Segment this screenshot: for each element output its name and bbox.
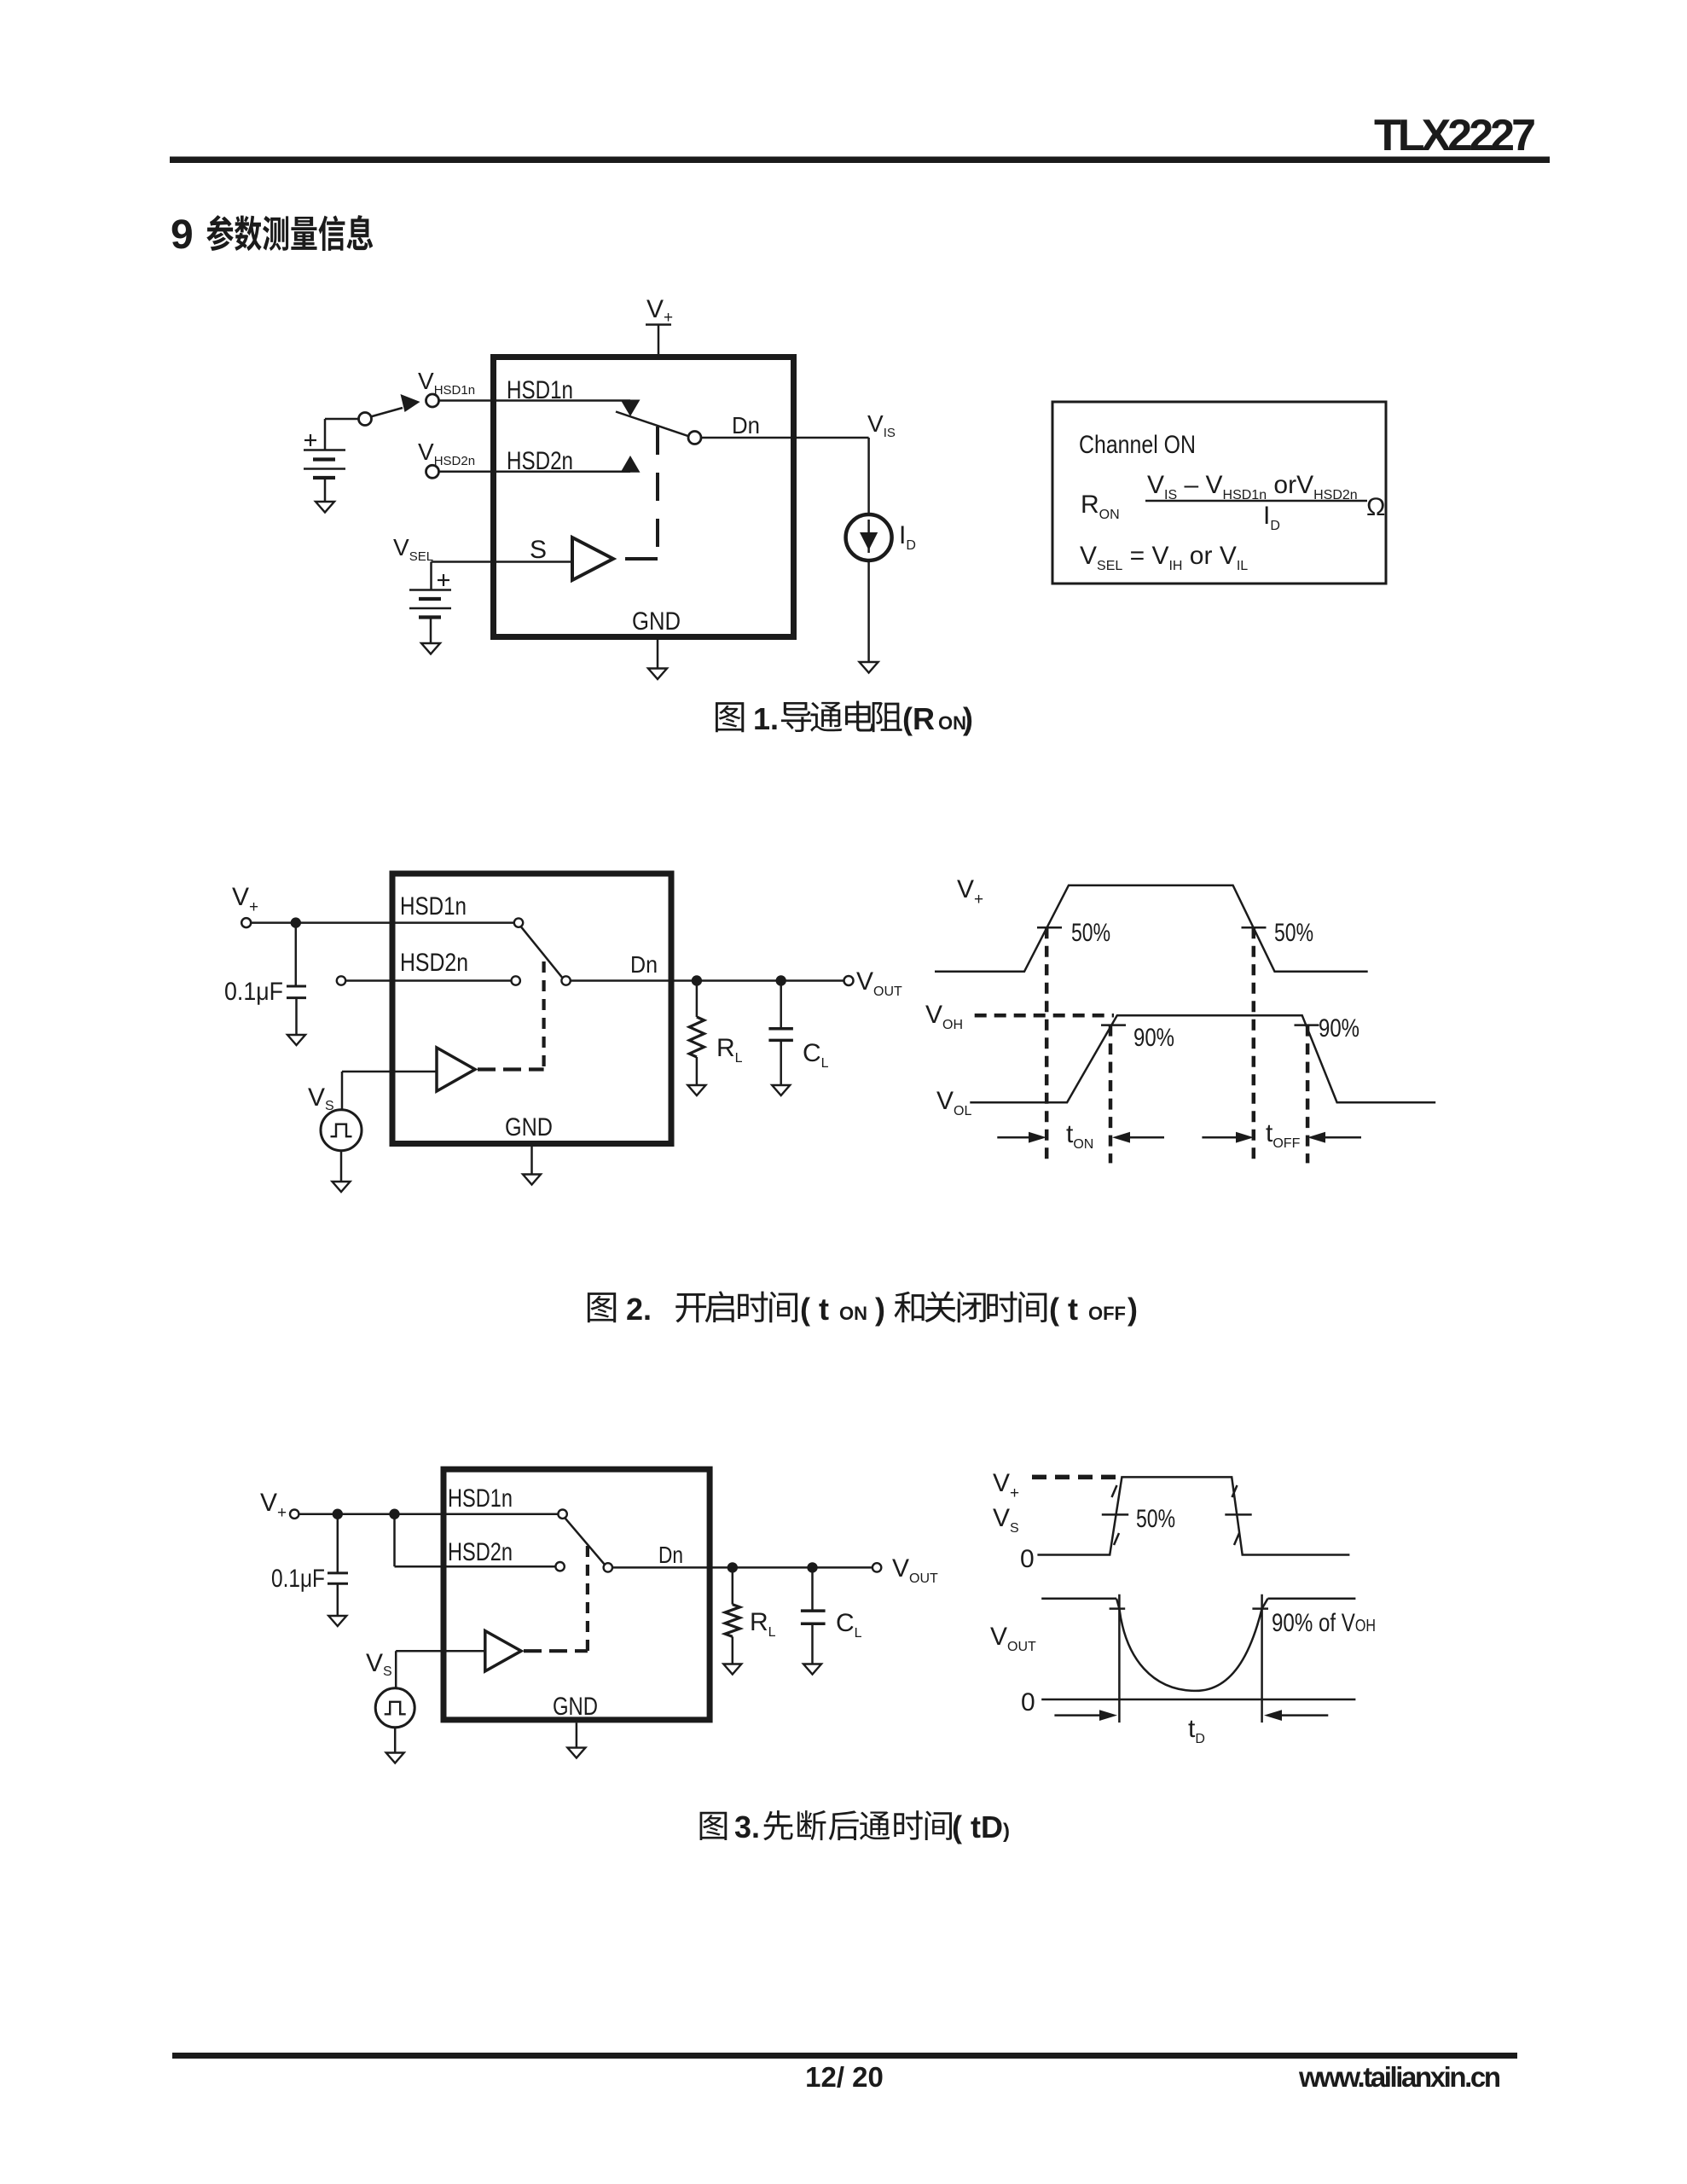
svg-text:HSD2n: HSD2n xyxy=(400,949,468,977)
svg-text:0.1μF: 0.1μF xyxy=(224,978,283,1006)
arrow down at HSD1n switch contact xyxy=(621,400,641,417)
svg-text:): ) xyxy=(1003,1820,1010,1843)
arrow into t1 fig2 xyxy=(997,1136,1031,1139)
svg-text:tOFF: tOFF xyxy=(1266,1119,1301,1151)
terminal circle V+ fig3 xyxy=(290,1510,299,1519)
dashed marker line t4 fig2 xyxy=(1306,1025,1310,1164)
dashed marker line t1 fig2 xyxy=(1045,927,1049,1163)
90%% tick fall fig2 xyxy=(1295,1024,1319,1026)
wire VS to buffer fig3 xyxy=(396,1650,485,1653)
svg-text:VS: VS xyxy=(308,1083,334,1113)
svg-text:RL: RL xyxy=(716,1034,743,1066)
svg-text:V+: V+ xyxy=(957,875,983,909)
select buffer amp fig3 xyxy=(485,1631,521,1671)
wire V+ to box xyxy=(658,325,660,357)
junction dot CL fig3 xyxy=(807,1562,817,1572)
terminal circle VHSD1n xyxy=(426,394,439,407)
svg-text:ID: ID xyxy=(1263,502,1280,533)
svg-text:HSD2n: HSD2n xyxy=(448,1538,513,1566)
wire VSEL to S input xyxy=(432,561,573,563)
svg-text:V+: V+ xyxy=(260,1489,287,1522)
50%% tick fall fig2 xyxy=(1242,926,1267,929)
svg-text:50%: 50% xyxy=(1071,919,1110,947)
svg-text:Dn: Dn xyxy=(658,1542,683,1568)
svg-text:Dn: Dn xyxy=(732,412,760,439)
svg-text:2.: 2. xyxy=(626,1292,652,1327)
svg-text:VS: VS xyxy=(993,1504,1019,1536)
IC box U1 fig1 xyxy=(494,357,794,637)
svg-text:GND: GND xyxy=(632,607,681,636)
battery B1 fig1 xyxy=(304,449,345,451)
contact circle HSD1n fig2 xyxy=(514,918,523,926)
arrow into t4 fig2 xyxy=(1323,1136,1361,1139)
IC box U1 fig3 xyxy=(443,1469,710,1720)
wire cap to ground fig3 xyxy=(337,1583,339,1616)
resistor RL fig2 xyxy=(696,981,699,1018)
wire HSD1n fig1 xyxy=(439,399,631,402)
junction dot RL fig2 xyxy=(692,975,702,985)
svg-text:0: 0 xyxy=(1021,1688,1035,1716)
wire HSD2n fig2 xyxy=(345,979,511,982)
svg-text:90% of VOH: 90% of VOH xyxy=(1272,1609,1376,1637)
svg-text:ON: ON xyxy=(839,1303,867,1324)
ground battery B2 xyxy=(421,643,440,654)
wire GND pin fig3 xyxy=(576,1722,578,1747)
svg-text:VOUT: VOUT xyxy=(856,967,902,999)
select buffer amp fig1 xyxy=(572,537,613,580)
battery B1 plus sign xyxy=(304,439,316,441)
ground GND pin fig3 xyxy=(567,1748,585,1758)
VOUT top level left fig3 xyxy=(1041,1598,1116,1600)
V+ power bar xyxy=(646,323,671,326)
capacitor CL fig2 xyxy=(780,981,782,1029)
svg-text:www.tailianxin.cn: www.tailianxin.cn xyxy=(1298,2061,1501,2093)
caption figure 1 xyxy=(716,702,744,732)
wire cap to ground fig2 xyxy=(295,998,298,1035)
dashed select line fig1 vertical xyxy=(656,427,659,559)
external selector arrowhead fig1 xyxy=(401,394,420,412)
wire GND pin fig1 xyxy=(657,640,659,669)
dashed marker line t2 fig2 xyxy=(1109,1025,1113,1164)
terminal circle V+ fig2 xyxy=(241,918,251,927)
svg-text:50%: 50% xyxy=(1136,1505,1175,1533)
svg-text:0.1μF: 0.1μF xyxy=(271,1565,325,1593)
svg-text:VIS: VIS xyxy=(867,410,896,440)
arrow into t2 fig2 xyxy=(1128,1136,1164,1139)
svg-text:tD: tD xyxy=(1188,1715,1205,1746)
svg-text:VHSD2n: VHSD2n xyxy=(418,439,475,468)
VS waveform fig3 xyxy=(1037,1477,1349,1554)
svg-text:90%: 90% xyxy=(1319,1014,1359,1043)
svg-text:12/ 20: 12/ 20 xyxy=(805,2061,884,2093)
wire battery to selector fig1 xyxy=(325,418,359,421)
svg-text:90%: 90% xyxy=(1133,1024,1174,1052)
footer rule xyxy=(172,2053,1517,2059)
svg-text:VS: VS xyxy=(366,1649,392,1679)
svg-text:OFF: OFF xyxy=(1088,1303,1126,1324)
arrow into tD start fig3 xyxy=(1054,1714,1102,1716)
battery B2 plus sign xyxy=(438,579,449,581)
ground battery B1 xyxy=(316,502,334,513)
arrow up at HSD2n switch contact xyxy=(621,456,641,473)
V+ waveform fig2 xyxy=(935,886,1368,972)
svg-text:( t: ( t xyxy=(800,1292,829,1327)
dashed select line fig3 vertical xyxy=(586,1546,589,1651)
svg-text:TLX2227: TLX2227 xyxy=(1374,111,1536,160)
svg-text:RON: RON xyxy=(1081,491,1120,522)
zero level line fig3 xyxy=(1041,1699,1355,1701)
switch pole circle Dn fig1 xyxy=(688,432,701,444)
fraction bar xyxy=(1145,500,1367,502)
note box Channel ON xyxy=(1052,402,1386,584)
svg-text:VOL: VOL xyxy=(936,1087,971,1118)
svg-text:1.: 1. xyxy=(753,701,779,736)
contact circle HSD2n fig2 xyxy=(512,976,520,985)
90%% tick right fig3 xyxy=(1252,1607,1268,1610)
svg-text:HSD2n: HSD2n xyxy=(507,447,573,475)
wire VIS down to current source xyxy=(867,438,870,515)
terminal circle VOUT fig3 xyxy=(872,1563,881,1571)
contact circle HSD2n fig3 xyxy=(555,1562,564,1571)
svg-text:CL: CL xyxy=(836,1609,862,1641)
marker line tD end fig3 xyxy=(1261,1594,1263,1722)
wire pulse source to ground fig2 xyxy=(340,1151,343,1182)
junction dot HSD2n branch fig3 xyxy=(389,1509,399,1519)
svg-text:( t: ( t xyxy=(1049,1292,1078,1327)
svg-text:Dn: Dn xyxy=(630,951,658,978)
wire V+ to box fig2 xyxy=(251,921,392,924)
svg-text:GND: GND xyxy=(505,1113,553,1141)
bypass capacitor 0.1uF fig3 xyxy=(328,1571,348,1574)
svg-text:0: 0 xyxy=(1020,1545,1035,1573)
ground RL fig3 xyxy=(723,1664,741,1675)
svg-text:VHSD1n: VHSD1n xyxy=(418,368,475,398)
wire VS to buffer fig2 xyxy=(342,1071,437,1073)
svg-text:HSD1n: HSD1n xyxy=(448,1484,513,1513)
header rule xyxy=(170,157,1550,164)
ground GND pin fig1 xyxy=(648,669,667,680)
svg-text:50%: 50% xyxy=(1274,919,1313,947)
caption figure 2 xyxy=(588,1292,616,1322)
junction dot cap fig3 xyxy=(333,1509,343,1519)
bypass capacitor 0.1uF fig2 xyxy=(287,985,306,988)
90%% tick rise fig2 xyxy=(1101,1024,1126,1026)
dashed V+ level fig3 xyxy=(1032,1475,1116,1480)
50%% tick rise fig2 xyxy=(1037,926,1062,929)
junction dot CL fig2 xyxy=(776,975,786,985)
switch pole circle Dn fig3 xyxy=(604,1563,612,1571)
switch blade fig1 xyxy=(616,412,689,437)
ground CL fig2 xyxy=(772,1085,790,1095)
arrow into t3 fig2 xyxy=(1202,1136,1238,1139)
svg-text:V+: V+ xyxy=(646,295,673,327)
svg-text:GND: GND xyxy=(553,1693,598,1721)
IC box U1 fig2 xyxy=(392,874,671,1144)
svg-text:VOUT: VOUT xyxy=(892,1554,938,1586)
svg-text:VIS – VHSD1n orVHSD2n: VIS – VHSD1n orVHSD2n xyxy=(1147,471,1358,502)
svg-text:(R: (R xyxy=(902,701,935,736)
wire Dn to VOUT fig3 xyxy=(612,1566,872,1569)
terminal circle HSD2n fig2 xyxy=(337,976,345,985)
50%% tick fall fig3 xyxy=(1225,1513,1251,1516)
svg-text:): ) xyxy=(875,1292,885,1327)
ground current source xyxy=(860,662,878,673)
caption figure 3 xyxy=(700,1812,728,1840)
resistor RL fig3 xyxy=(732,1567,734,1604)
ground GND pin fig2 xyxy=(523,1175,541,1185)
svg-text:VSEL: VSEL xyxy=(393,534,433,564)
terminal circle VHSD2n xyxy=(426,465,439,478)
50%% tick rise fig3 xyxy=(1102,1513,1128,1516)
svg-text:): ) xyxy=(963,701,973,736)
dashed select line fig1 horizontal xyxy=(625,557,658,561)
junction dot V+ / cap fig2 xyxy=(291,917,301,927)
pulse source VS fig3 xyxy=(375,1688,415,1728)
svg-text:tON: tON xyxy=(1066,1120,1093,1152)
ground pulse source fig2 xyxy=(333,1182,351,1192)
wire V+ to HSD1n fig3 xyxy=(299,1513,558,1515)
wire battery B2 to ground xyxy=(430,618,432,644)
external selector circle fig1 xyxy=(359,413,372,426)
wire pulse source to ground fig3 xyxy=(394,1728,397,1753)
wire GND pin fig2 xyxy=(530,1147,533,1175)
svg-text:): ) xyxy=(1128,1292,1138,1327)
terminal circle VOUT fig2 xyxy=(844,976,854,985)
svg-text:S: S xyxy=(530,536,547,564)
switch blade fig2 xyxy=(521,926,563,978)
switch pole circle Dn fig2 xyxy=(561,976,570,985)
ground CL fig3 xyxy=(803,1664,821,1675)
ground pulse source fig3 xyxy=(386,1753,404,1763)
svg-text:VSEL = VIH or VIL: VSEL = VIH or VIL xyxy=(1080,542,1248,573)
junction dot RL fig3 xyxy=(728,1562,738,1572)
external selector blade fig1 xyxy=(371,408,403,417)
wire battery B1 to ground xyxy=(324,478,327,502)
svg-text:9: 9 xyxy=(171,212,194,258)
dashed select line fig2 vertical xyxy=(542,961,545,1070)
svg-text:3.: 3. xyxy=(734,1809,760,1844)
dashed select line fig3 horizontal xyxy=(524,1649,588,1653)
battery B2 fig1 xyxy=(409,589,451,591)
rise tick marks fig3 xyxy=(1112,1485,1117,1497)
current source ID fig1 xyxy=(846,514,892,561)
svg-text:CL: CL xyxy=(803,1039,829,1071)
svg-text:V+: V+ xyxy=(232,883,258,916)
ground RL fig2 xyxy=(687,1085,705,1095)
VOUT top level right fig3 xyxy=(1262,1599,1268,1609)
VOUT dip curve fig3 xyxy=(1119,1609,1261,1691)
dashed VOH level fig2 xyxy=(975,1014,1114,1018)
svg-text:VOUT: VOUT xyxy=(990,1623,1036,1654)
wire Dn to VIS node xyxy=(701,437,869,439)
capacitor CL fig3 xyxy=(811,1567,814,1611)
contact circle HSD1n fig3 xyxy=(558,1510,566,1519)
wire to bypass cap fig2 xyxy=(295,923,298,986)
pulse source VS fig2 xyxy=(321,1110,362,1151)
fall tick marks fig3 xyxy=(1232,1485,1238,1497)
svg-text:HSD1n: HSD1n xyxy=(400,892,467,921)
svg-text:V+: V+ xyxy=(993,1469,1019,1502)
switch blade fig3 xyxy=(565,1518,604,1564)
arrow into tD end fig3 xyxy=(1278,1714,1328,1716)
dashed select line fig2 horizontal xyxy=(478,1067,544,1071)
VOUT waveform fig2 xyxy=(970,1015,1435,1102)
svg-text:ID: ID xyxy=(899,521,916,553)
dashed marker line t3 fig2 xyxy=(1252,927,1256,1163)
branch wire to HSD2n fig3 xyxy=(393,1514,396,1567)
wire HSD1n fig2 xyxy=(395,921,514,924)
ground bypass cap fig2 xyxy=(287,1035,305,1045)
svg-text:VOH: VOH xyxy=(925,1001,963,1032)
svg-text:( tD: ( tD xyxy=(952,1809,1003,1844)
svg-text:HSD1n: HSD1n xyxy=(507,376,573,404)
svg-text:Channel ON: Channel ON xyxy=(1079,431,1196,459)
ground bypass cap fig3 xyxy=(328,1616,346,1626)
svg-text:Ω: Ω xyxy=(1366,493,1385,521)
90%% tick left fig3 xyxy=(1110,1607,1126,1610)
marker line tD start fig3 xyxy=(1118,1594,1121,1722)
wire current source to ground xyxy=(867,561,870,662)
wire HSD2n fig1 xyxy=(439,471,631,473)
wire Dn to VOUT fig2 xyxy=(571,979,844,982)
select buffer amp fig2 xyxy=(437,1048,475,1091)
svg-text:RL: RL xyxy=(750,1608,776,1640)
wire to bypass cap fig3 xyxy=(337,1514,339,1573)
